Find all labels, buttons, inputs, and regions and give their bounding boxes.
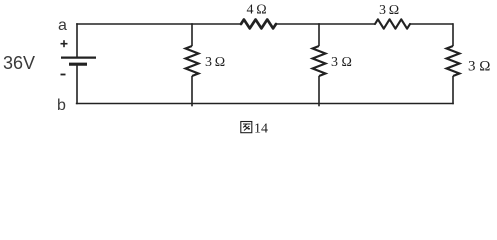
svg-text:3 Ω: 3 Ω (468, 59, 490, 75)
caption figure character 图 (drawn) (241, 122, 252, 133)
wire: node column 2 from top rail to resistor R3 (318, 23, 320, 46)
svg-text:36V: 36V (3, 53, 35, 73)
resistor R1 3Ω (vertical zigzag, column 1) (186, 46, 199, 76)
resistor R2 4Ω (horizontal zigzag, top rail) (241, 20, 276, 29)
svg-text:3 Ω: 3 Ω (205, 55, 225, 70)
wire bottom rail b (76, 103, 454, 105)
wire top rail a: left corner to 4-ohm resistor (76, 23, 241, 25)
voltage source V1 36V: long positive plate (61, 56, 96, 58)
svg-text:b: b (57, 97, 66, 114)
wire: resistor R1 to bottom rail (191, 76, 193, 106)
voltage source V1 36V: short negative plate (69, 63, 87, 66)
polarity plus sign of V1 (61, 40, 68, 47)
wire: node column 1 from top rail to resistor R1 (191, 23, 193, 46)
wire: resistor R5 to bottom-right corner (452, 76, 454, 104)
wire: resistor R3 to bottom rail (318, 76, 320, 106)
svg-text:3 Ω: 3 Ω (331, 55, 352, 70)
svg-text:a: a (58, 17, 67, 34)
wire top rail: 3-ohm resistor to top-right corner (410, 23, 453, 25)
wire left rail: node a down to battery positive plate (76, 23, 78, 57)
svg-text:14: 14 (254, 122, 268, 137)
resistor R3 3Ω (vertical zigzag, column 2) (313, 46, 326, 76)
resistor R5 3Ω (vertical zigzag, right rail) (447, 46, 460, 76)
wire top rail: between 4-ohm and 3-ohm resistors (276, 23, 375, 25)
resistor R4 3Ω (horizontal zigzag, top rail right) (375, 19, 410, 28)
svg-text:4 Ω: 4 Ω (247, 3, 267, 18)
wire right rail: top-right corner down to resistor R5 (452, 23, 454, 46)
polarity minus sign of V1 (61, 74, 66, 76)
svg-text:3 Ω: 3 Ω (379, 3, 399, 18)
wire left rail: battery negative plate down to node b (76, 66, 78, 105)
